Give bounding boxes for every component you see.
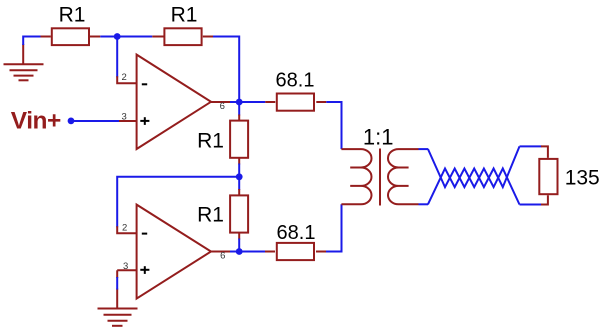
transformer TR1 core [379,149,381,206]
resistor 68.1 (top) [265,94,326,111]
transformer TR1 secondary winding [388,149,419,204]
wire J4 to R68b [239,251,265,253]
op-amp U1 minus symbol [142,83,147,85]
wire R1d to J4 [238,239,240,252]
resistor R1 (top-left) [41,28,101,45]
svg-text:2: 2 [122,72,127,83]
svg-text:68.1: 68.1 [276,70,315,92]
svg-text:135: 135 [565,167,599,190]
resistor 135 (load, vertical) [539,146,557,204]
svg-text:3: 3 [122,111,127,122]
wire R68a to transformer primary top [326,102,341,149]
wire twisted pair top to R135 [520,145,542,147]
svg-text:2: 2 [122,222,127,233]
op-amp U2 [117,205,231,299]
wire J2 down to R1c [238,102,240,116]
svg-text:R1: R1 [197,129,224,152]
node junction J3 [236,173,243,180]
ground GND2 [98,270,138,326]
wire secondary top to twisted pair [419,148,429,150]
twisted pair line A [428,146,520,187]
svg-text:Vin+: Vin+ [11,108,61,135]
wire R1a to R1b [100,36,152,38]
svg-text:R1: R1 [197,204,224,227]
svg-text:3: 3 [123,261,128,272]
wire twisted pair bottom to R135 [520,204,542,206]
wire Vin+ to U1 pin3 [74,120,120,122]
wire J2 to R68a [239,101,265,103]
op-amp U2 minus symbol [142,233,147,235]
resistor R1 (middle upper, vertical) [230,115,248,165]
svg-text:R1: R1 [59,3,86,26]
wire R68b to transformer primary bottom [326,204,342,251]
wire J3 feedback to U2 pin2 [117,177,239,228]
svg-text:R1: R1 [171,3,198,26]
svg-text:6: 6 [220,101,225,112]
resistor R1 (top feedback) [152,28,213,45]
node junction J4 (U2 output) [236,248,243,255]
op-amp U1 [117,55,231,149]
wire U2 pin3 to GND2 [116,277,118,290]
terminal dot Vin+ [68,118,75,125]
svg-text:68.1: 68.1 [277,222,316,244]
wire R1c to J3 [238,164,240,177]
wire GND1 to R1a [23,37,41,46]
wire R1b to output node [213,37,239,103]
svg-text:1:1: 1:1 [363,125,394,150]
op-amp U2 plus symbol [140,266,149,274]
resistor R1 (middle lower, vertical) [230,177,248,240]
wire U2 output stub to J4 [230,251,239,253]
node junction J1 [114,33,121,40]
wire U1 output stub to J2 [230,101,239,103]
ground GND1 [4,44,44,80]
wire J1 down to U1 pin2 [116,37,118,78]
wire secondary bottom to twisted pair [419,203,429,205]
node junction J2 (U1 output) [236,99,243,106]
resistor 68.1 (bottom) [265,243,326,260]
transformer TR1 primary winding [341,149,371,204]
twisted pair line B [428,169,520,205]
svg-text:6: 6 [220,250,225,261]
op-amp U1 plus symbol [140,117,149,125]
